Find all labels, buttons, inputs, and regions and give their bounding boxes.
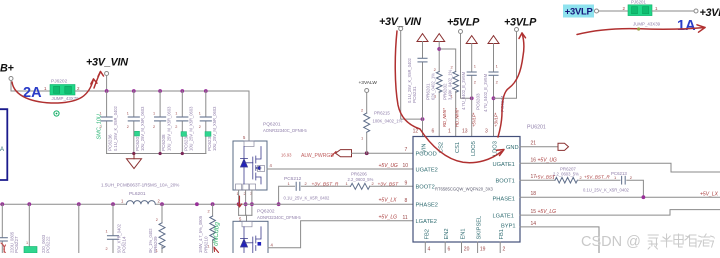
- pin 3 LDO3: [485, 129, 499, 157]
- svg-text:PQ6202: PQ6202: [257, 209, 275, 215]
- wire bus to PQ6201 drain: [248, 91, 250, 141]
- node +5VLP: [447, 17, 480, 34]
- pin 13 LDO5: [462, 129, 477, 157]
- wire output bus y204: [0, 203, 413, 205]
- svg-text:21: 21: [531, 141, 537, 147]
- svg-text:10: 10: [403, 163, 409, 169]
- svg-text:2: 2: [127, 125, 129, 129]
- testpoint green circle under jumper: [54, 111, 59, 116]
- capacitor PC6204: [483, 44, 505, 137]
- wire PHASE1 out: [520, 196, 720, 198]
- svg-text:+5V_LX: +5V_LX: [700, 192, 719, 198]
- pin 19 SKIPSEL: [477, 216, 486, 253]
- svg-text:11: 11: [403, 215, 408, 221]
- capacitor PC6239: [199, 91, 217, 154]
- svg-text:0.1U_25V_K_X5R_0402: 0.1U_25V_K_X5R_0402: [113, 105, 118, 151]
- svg-text:FB1: FB1: [499, 229, 505, 239]
- svg-text:8: 8: [405, 198, 408, 204]
- resistor PR6201: [426, 42, 442, 137]
- svg-text:+3V_BST_R: +3V_BST_R: [312, 181, 339, 187]
- svg-text:15: 15: [531, 209, 537, 215]
- junction cap PC6207 top: [132, 89, 136, 93]
- svg-text:1A: 1A: [677, 18, 696, 34]
- red annotation: mark near PR6210 bottom: [214, 247, 219, 253]
- svg-text:PR6210: PR6210: [203, 236, 208, 253]
- red annotation: +3V_VIN down into IC toward GND: [395, 31, 504, 163]
- node +3V_VIN (left): [86, 57, 128, 76]
- svg-text:1: 1: [106, 230, 108, 234]
- pins 1 2 3 of PQ6201: [237, 191, 254, 196]
- pin 16 UGATE1: [493, 157, 537, 168]
- pin 1 CS1: [448, 129, 461, 154]
- pin 21 GND: [506, 141, 536, 151]
- wire UGATE1 out: [520, 163, 720, 172]
- capacitor PC6213: [579, 171, 644, 197]
- capacitor PC6222 (green highlighted, cut): [24, 204, 50, 253]
- svg-text:LGATE2: LGATE2: [416, 219, 437, 225]
- svg-text:LGATE1: LGATE1: [493, 213, 514, 219]
- svg-text:0.1U_25V_K_X5R_0402: 0.1U_25V_K_X5R_0402: [284, 196, 331, 201]
- svg-text:PR6206: PR6206: [351, 172, 367, 177]
- wire GND to off-page: [520, 146, 558, 148]
- olive dot on 1A arrow: [637, 27, 640, 30]
- svg-text:2: 2: [199, 125, 201, 129]
- svg-text:3: 3: [485, 129, 488, 135]
- wire cap-bank ground bus y153.5: [107, 153, 206, 155]
- wire +3VLP to jumper: [599, 10, 629, 12]
- svg-text:1: 1: [199, 112, 201, 116]
- svg-text:PC6222: PC6222: [45, 236, 50, 253]
- pin 15 LGATE1: [493, 209, 537, 219]
- svg-text:UGATE2: UGATE2: [416, 167, 438, 173]
- svg-text:PC6227: PC6227: [14, 236, 19, 253]
- svg-text:+5VLP: +5VLP: [447, 17, 480, 29]
- svg-text:+5V_LG: +5V_LG: [379, 215, 398, 221]
- svg-text:PHASE2: PHASE2: [416, 203, 438, 209]
- node +3VLP (above LDO3): [504, 17, 537, 32]
- svg-text:EN2: EN2: [444, 228, 450, 239]
- pin 8 PHASE2: [405, 198, 438, 208]
- junction dots on output bus: [0, 202, 214, 206]
- power arrow LDO3 column: [488, 36, 499, 44]
- svg-text:PL6201: PL6201: [129, 191, 146, 197]
- junction cap PC6208 top: [158, 89, 162, 93]
- resistor PR6202: [443, 65, 459, 137]
- svg-text:ALW_PWRGD: ALW_PWRGD: [301, 153, 334, 159]
- svg-text:16: 16: [531, 157, 537, 163]
- capacitor PC6231: [407, 42, 427, 137]
- svg-text:1: 1: [448, 129, 451, 135]
- wire +3VLP to LDO3 column: [494, 32, 517, 99]
- svg-text:PC6231: PC6231: [412, 86, 417, 103]
- ground symbol: [127, 154, 142, 169]
- capacitor PC6236: [100, 91, 118, 154]
- wire PQ6201 gate to UGATE2: [267, 168, 413, 170]
- junction VIN column: [421, 117, 425, 121]
- svg-text:10U_25V_M_X5R_0603: 10U_25V_M_X5R_0603: [189, 106, 194, 151]
- wire PQ6202 gate to LGATE2: [268, 221, 413, 248]
- svg-text:2: 2: [208, 210, 210, 214]
- pin 2 FB1: [499, 229, 505, 253]
- resistor PR6206: [346, 172, 375, 190]
- svg-text:19: 19: [480, 247, 486, 253]
- svg-text:PJ6202: PJ6202: [51, 79, 68, 85]
- wire CS2 to CS1 link: [439, 49, 456, 72]
- junction PR6215 on PGOOD wire: [365, 151, 369, 155]
- capacitor PC6212: [279, 176, 351, 204]
- svg-text:2: 2: [156, 218, 158, 222]
- pin 17 BOOT1: [496, 174, 537, 184]
- capacitor PC6214: [106, 204, 127, 253]
- pin 20 EN1: [461, 228, 470, 253]
- svg-text:SKIPSEL: SKIPSEL: [477, 216, 483, 240]
- svg-text:RT6585CGQW_WQFN20_3X3: RT6585CGQW_WQFN20_3X3: [435, 187, 494, 192]
- svg-text:PGOOD: PGOOD: [416, 151, 437, 157]
- svg-text:BYP1: BYP1: [501, 223, 516, 229]
- svg-text:13: 13: [462, 129, 468, 135]
- red annotation: 1A arrow (top right): [577, 25, 705, 35]
- svg-text:9: 9: [405, 180, 408, 186]
- svg-text:JUMP_43X39: JUMP_43X39: [633, 22, 661, 27]
- wire PR6206 to BOOT2: [370, 185, 414, 187]
- op-amp/controller IC PU6201: [413, 125, 546, 243]
- pin 12 VIN: [413, 129, 428, 154]
- wire ALW_PWRGD to PGOOD: [352, 152, 414, 154]
- wire LGATE1 out: [520, 210, 720, 216]
- junction CS2 column top: [437, 47, 441, 51]
- svg-text:FB2: FB2: [424, 229, 430, 239]
- svg-text:PQ6201: PQ6201: [263, 122, 281, 128]
- red annotation: mark at PQ6201 source pins: [238, 196, 242, 207]
- node +3VLP highlighted (top right): [563, 5, 599, 18]
- node +3VALW: [359, 80, 378, 93]
- svg-text:1: 1: [26, 241, 28, 245]
- transistor PQ6201: [233, 122, 307, 191]
- resistor PR6215: [361, 93, 403, 154]
- power arrow VIN column: [417, 34, 428, 42]
- svg-text:PC6214: PC6214: [122, 236, 127, 253]
- svg-text:+5V_UG: +5V_UG: [538, 157, 557, 163]
- svg-text:HD_NM6*: HD_NM6*: [454, 108, 459, 127]
- pin 11 LGATE2: [403, 215, 437, 225]
- svg-text:BOOT1: BOOT1: [496, 179, 515, 185]
- wire jumper to +3VLP right: [652, 10, 694, 12]
- svg-text:A: A: [0, 147, 4, 153]
- off-page connector GND (arrow right): [558, 143, 569, 150]
- wire BOOT1 to PR6207: [520, 179, 555, 181]
- pin 14 BYP1: [501, 221, 536, 229]
- svg-text:dNCdbg: dNCdbg: [213, 222, 221, 247]
- svg-text:PHASE1: PHASE1: [493, 197, 515, 203]
- resistor PR6209: [148, 204, 165, 253]
- svg-text:+5V_UG: +5V_UG: [379, 163, 398, 169]
- green highlight squares on caps: [135, 131, 212, 136]
- svg-text:EN1: EN1: [461, 228, 467, 239]
- junction at +3V_VIN/bus: [105, 89, 109, 93]
- pin 7 PGOOD: [405, 147, 437, 157]
- svg-text:PR6209: PR6209: [153, 236, 158, 253]
- wire +5VLP to LDO5 column: [461, 34, 472, 99]
- svg-text:100K_0402_1%: 100K_0402_1%: [373, 119, 403, 124]
- junction phase x bus: [237, 202, 254, 206]
- red annotation: tick near ALW_PWRGD: [332, 152, 337, 157]
- svg-text:12: 12: [413, 129, 419, 135]
- svg-text:4.7U_0402_E_3V6M: 4.7U_0402_E_3V6M: [461, 71, 466, 110]
- svg-text:CS1: CS1: [455, 142, 461, 153]
- junction LDO3 column: [492, 96, 496, 100]
- svg-text:1.5UH_PCMB063T-1R5MS_10A_20%: 1.5UH_PCMB063T-1R5MS_10A_20%: [101, 183, 179, 188]
- junction LDO5 column: [470, 96, 474, 100]
- wire B+ down to bus: [11, 81, 50, 92]
- svg-text:+3VALW: +3VALW: [359, 80, 378, 86]
- svg-text:18: 18: [531, 191, 537, 197]
- svg-text:B+: B+: [0, 63, 15, 75]
- svg-text:BOOT2: BOOT2: [416, 185, 435, 191]
- svg-text:+3VLP: +3VLP: [565, 5, 593, 16]
- svg-text:10U_25V_M_X5R_0603: 10U_25V_M_X5R_0603: [212, 106, 217, 151]
- junction PC6213 on PHASE1: [642, 195, 646, 199]
- svg-text:+3VLP: +3VLP: [504, 17, 537, 29]
- svg-text:GND: GND: [506, 145, 519, 151]
- svg-text:+3VLP: +3VLP: [700, 7, 720, 19]
- svg-text:LDO5: LDO5: [471, 141, 477, 156]
- jumper PJ6201: [628, 0, 661, 26]
- svg-text:+3V_VIN: +3V_VIN: [86, 57, 128, 69]
- svg-text:1: 1: [153, 112, 155, 116]
- wire phase stubs PQ6201 to bus: [239, 190, 252, 221]
- node +3VLP (right edge, cut): [694, 7, 720, 19]
- power arrow LDO5 column: [466, 36, 477, 44]
- svg-text:1: 1: [175, 112, 177, 116]
- resistor PR6207: [552, 167, 583, 183]
- jumper PJ6202: [50, 79, 79, 102]
- svg-text:CSDN @: CSDN @: [581, 234, 641, 250]
- wire stub down at x78.8: [78, 204, 80, 253]
- component box left edge (blue): [0, 109, 7, 180]
- capacitor PC6208: [153, 91, 171, 154]
- junction dots on ground bus: [132, 152, 184, 155]
- junction PC6212 on phase bus: [277, 202, 281, 206]
- svg-text:+5V_LG: +5V_LG: [538, 209, 557, 215]
- capacitor PC6238: [175, 91, 193, 154]
- svg-text:PR6215: PR6215: [374, 111, 390, 116]
- pin 9 BOOT2: [405, 180, 435, 190]
- svg-text:UGATE1: UGATE1: [493, 162, 515, 168]
- off-page connector ALW_PWRGD: [336, 150, 352, 157]
- svg-text:PJ6201: PJ6201: [631, 0, 646, 5]
- svg-text:RD_NM6*: RD_NM6*: [442, 108, 447, 127]
- svg-text:3.49K_0402_1%: 3.49K_0402_1%: [447, 69, 452, 100]
- svg-text:2: 2: [175, 125, 177, 129]
- svg-text:2: 2: [106, 247, 108, 251]
- svg-text:PC6203: PC6203: [475, 93, 480, 110]
- capacitor PC6227 (bottom edge, cut): [0, 204, 19, 253]
- node B+: [0, 63, 15, 81]
- watermark CSDN: [581, 234, 714, 250]
- capacitor PC6203: [461, 44, 481, 137]
- capacitor PC6207: [127, 91, 145, 154]
- pin 4 FB2: [424, 229, 430, 253]
- power arrow CS2 column: [434, 34, 445, 42]
- svg-text:1MW_4.7_5%_0805: 1MW_4.7_5%_0805: [198, 215, 203, 253]
- svg-text:+5VLP*: +5VLP*: [471, 112, 476, 127]
- svg-text:6: 6: [448, 247, 451, 253]
- red annotation: +3VLP S-curve with up arrow: [498, 33, 526, 137]
- svg-text:AONR32340C_DFN8-5: AONR32340C_DFN8-5: [263, 128, 307, 133]
- pin 10 UGATE2: [403, 163, 438, 173]
- transistor PQ6202: [233, 209, 301, 256]
- svg-text:2: 2: [503, 247, 506, 253]
- svg-text:SMC_10U: SMC_10U: [97, 114, 103, 139]
- resistor PR6210: [198, 204, 215, 253]
- svg-text:10U_25V_M_X5R_0603: 10U_25V_M_X5R_0603: [166, 106, 171, 151]
- pin 6 CS2: [432, 129, 445, 154]
- svg-text:AONR32340C_DFN8-5: AONR32340C_DFN8-5: [257, 215, 301, 220]
- svg-text:62K_0402_1%: 62K_0402_1%: [431, 73, 436, 100]
- svg-text:14: 14: [531, 221, 537, 227]
- svg-text:7: 7: [405, 147, 408, 153]
- red annotation: B+ loop to +3V_VIN with arrows: [12, 72, 104, 104]
- wire BYP1 out: [520, 227, 599, 253]
- svg-text:2.2_0603_5%: 2.2_0603_5%: [553, 172, 579, 177]
- wire +3V_VIN label to bus: [106, 76, 108, 92]
- svg-text:0.1U_25V_K_X5R_0402: 0.1U_25V_K_X5R_0402: [583, 188, 630, 193]
- svg-text:+5V_BST_R: +5V_BST_R: [584, 174, 610, 179]
- wire +3V_VIN down to VIN pin column: [401, 31, 423, 120]
- svg-text:4: 4: [428, 247, 431, 253]
- svg-text:+3VLP*: +3VLP*: [493, 112, 498, 127]
- svg-text:2: 2: [153, 125, 155, 129]
- wire +3V_VIN bus y91: [75, 90, 249, 92]
- inductor PL6201: [101, 183, 179, 205]
- junction cap PC6238 top: [180, 89, 184, 93]
- svg-text:PU6201: PU6201: [527, 125, 546, 131]
- svg-text:2.2_0603_5%: 2.2_0603_5%: [348, 177, 374, 182]
- pin 6 EN2: [444, 228, 450, 253]
- svg-text:20: 20: [464, 247, 470, 253]
- red annotation: mark at PC6227 bottom left: [1, 243, 6, 253]
- pin 18 PHASE1: [493, 191, 537, 203]
- node +3V_VIN (top): [379, 16, 421, 31]
- svg-text:+5V_LX: +5V_LX: [379, 198, 398, 204]
- svg-text:10U_25V_M_X5R_0603: 10U_25V_M_X5R_0603: [140, 106, 145, 151]
- junction cap PC6239 top: [204, 89, 208, 93]
- svg-text:6: 6: [432, 129, 435, 135]
- svg-text:1: 1: [127, 112, 129, 116]
- svg-text:4.7U_0402_E_3V6M: 4.7U_0402_E_3V6M: [483, 73, 488, 112]
- svg-text:16.93: 16.93: [281, 153, 292, 158]
